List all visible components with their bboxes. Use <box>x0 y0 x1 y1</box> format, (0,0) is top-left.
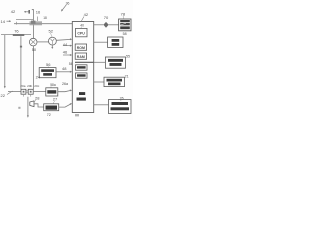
faint label below controller <box>75 114 79 116</box>
svg-text:22: 22 <box>1 93 6 98</box>
node dot on vertical <box>20 46 22 48</box>
wire controller to diamond <box>94 24 104 26</box>
svg-text:76: 76 <box>14 28 19 33</box>
feed box <box>105 57 125 68</box>
svg-text:58: 58 <box>123 32 127 36</box>
svg-text:20c: 20c <box>34 84 39 88</box>
display box 54 <box>108 37 123 48</box>
diamond junction <box>103 22 108 28</box>
svg-text:28: 28 <box>35 95 40 100</box>
RAM box <box>75 53 86 59</box>
svg-text:70: 70 <box>104 15 109 20</box>
wire diamond to plug <box>109 24 119 26</box>
svg-text:27: 27 <box>53 97 58 102</box>
wire long vertical drum <box>27 97 29 116</box>
roller 50 (left circle) <box>29 38 37 46</box>
wire vertical below roller <box>33 46 35 90</box>
svg-text:78: 78 <box>121 11 126 16</box>
wire stub 44 arrow <box>63 45 71 47</box>
unit 20a box <box>21 89 26 94</box>
wire stub below motor <box>51 45 53 48</box>
wire vertical top feed <box>33 10 35 39</box>
wire sensor to controller arrow <box>56 71 71 73</box>
timer box <box>76 73 88 78</box>
motor 52 (right circle) <box>49 37 57 45</box>
wire tray upper line <box>16 19 33 21</box>
wire controller to box 54 <box>94 41 108 43</box>
bus line dark <box>75 61 94 63</box>
svg-text:RAM: RAM <box>77 55 85 59</box>
svg-text:26a: 26a <box>62 82 68 86</box>
box 27 <box>44 104 59 111</box>
sensor box 56 <box>39 68 56 78</box>
unit 20b box <box>28 89 33 94</box>
wire left vertical with arrow <box>4 35 6 87</box>
wire second vertical <box>20 36 22 89</box>
wire motor to controller with arrow <box>56 38 71 41</box>
svg-text:58a: 58a <box>50 83 56 87</box>
controller title text <box>79 92 85 95</box>
wire hopper to box 27 <box>34 104 44 107</box>
svg-text:20a: 20a <box>20 84 25 88</box>
svg-text:24: 24 <box>36 75 41 80</box>
svg-text:42: 42 <box>84 12 89 17</box>
wire row1 mid <box>33 91 46 93</box>
wire row1 left <box>8 91 21 93</box>
svg-text:52: 52 <box>49 28 54 33</box>
svg-text:40: 40 <box>80 24 84 28</box>
wire row2 to controller arrow <box>59 104 71 107</box>
svg-text:ROM: ROM <box>77 46 85 50</box>
svg-text:72: 72 <box>47 113 51 117</box>
stubs below 20a 20b <box>24 94 31 96</box>
svg-text:36: 36 <box>66 2 70 6</box>
svg-text:48: 48 <box>62 66 67 71</box>
wire row1 to controller arrow <box>58 90 71 91</box>
wire long horizontal to controller <box>14 23 72 25</box>
wire controller to box 2.1 <box>94 81 104 83</box>
svg-text:50: 50 <box>32 47 37 52</box>
svg-text:16: 16 <box>36 10 41 15</box>
node arrow to stack <box>24 11 29 13</box>
svg-text:55: 55 <box>126 55 130 59</box>
svg-text:56: 56 <box>46 62 51 67</box>
svg-text:14: 14 <box>1 19 6 24</box>
mark 26b <box>18 107 20 109</box>
power unit 78 box <box>119 19 131 31</box>
LVDB box <box>46 88 58 96</box>
process box <box>104 77 125 86</box>
svg-text:46: 46 <box>63 50 68 55</box>
ROM box <box>75 44 86 50</box>
svg-text:18: 18 <box>43 16 47 20</box>
main controller box 4.2 <box>72 22 93 113</box>
wire controller to box 2.6 <box>94 104 109 106</box>
svg-text:20b: 20b <box>27 84 32 88</box>
IO box <box>76 65 88 70</box>
label 7 leader (top right of mech) <box>62 5 67 11</box>
svg-text:CPU: CPU <box>77 31 85 35</box>
svg-text:44: 44 <box>63 42 68 47</box>
hopper trapezoid 28 <box>30 101 34 107</box>
coupler <box>26 91 28 93</box>
wire stub 46 arrow <box>63 54 71 56</box>
svg-text:21: 21 <box>125 74 129 78</box>
comm box <box>109 100 132 114</box>
wire plate line <box>1 34 31 36</box>
wire controller to box 5x <box>94 61 106 63</box>
wire roller link <box>37 41 49 43</box>
svg-text:42: 42 <box>11 9 16 14</box>
paper stack patch <box>30 21 43 25</box>
